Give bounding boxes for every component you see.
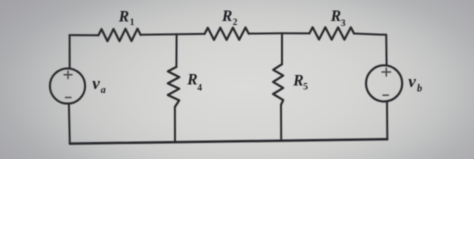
resistor R4 <box>168 67 180 107</box>
wire right vertical (top corner down to vb) <box>385 35 387 65</box>
svg-text:R: R <box>186 71 197 88</box>
svg-text:2: 2 <box>233 18 238 28</box>
resistor R1 <box>99 29 141 42</box>
wire bottom run <box>70 139 388 143</box>
svg-text:R: R <box>221 8 232 25</box>
svg-text:R: R <box>118 8 129 25</box>
svg-text:v: v <box>92 74 100 93</box>
svg-text:4: 4 <box>197 83 202 93</box>
wire left vertical (top corner down to va) <box>69 35 71 68</box>
svg-text:R: R <box>330 8 341 25</box>
va minus sign <box>65 97 72 99</box>
wire R4 bottom lead <box>174 107 176 142</box>
vb minus sign <box>382 94 389 96</box>
svg-text:5: 5 <box>303 82 308 92</box>
voltage source vb circle <box>366 65 402 101</box>
wire R5 bottom lead <box>280 105 282 141</box>
resistor R2 <box>205 28 249 40</box>
svg-text:b: b <box>417 84 422 95</box>
wire R3 to top-right corner <box>354 34 386 35</box>
vb plus sign <box>382 68 392 77</box>
wire R5 top lead <box>281 33 283 64</box>
wire R4 top lead <box>175 34 177 67</box>
wire va bottom to bottom-left corner <box>68 104 71 143</box>
wire R1 to R2 (node with R4 tap) <box>141 33 205 36</box>
voltage source va circle <box>50 68 85 103</box>
wire vb bottom to bottom-right corner <box>386 102 388 139</box>
resistor R3 <box>309 27 354 39</box>
resistor R5 <box>273 64 283 105</box>
svg-text:v: v <box>408 72 416 91</box>
svg-text:1: 1 <box>130 18 135 28</box>
wire top run left (node from va to R1) <box>70 34 99 36</box>
va plus sign <box>64 71 73 80</box>
svg-text:a: a <box>101 85 106 96</box>
svg-text:R: R <box>292 73 303 90</box>
wire R2 to R3 (node with R5 tap) <box>249 32 310 34</box>
svg-text:3: 3 <box>341 19 346 29</box>
